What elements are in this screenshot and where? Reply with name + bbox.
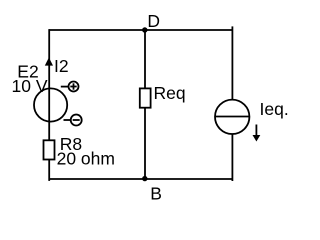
svg-text:D: D [147,11,160,31]
svg-text:Req: Req [154,83,186,103]
svg-text:20 ohm: 20 ohm [57,148,115,168]
svg-text:I2: I2 [54,56,69,76]
svg-text:B: B [150,184,162,204]
svg-text:Ieq.: Ieq. [260,99,289,119]
svg-text:10 V: 10 V [12,76,48,96]
